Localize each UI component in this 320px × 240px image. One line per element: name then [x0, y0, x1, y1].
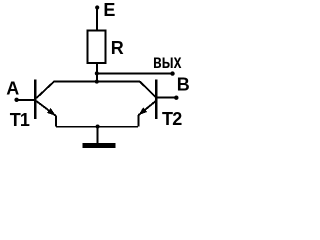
svg-text:T1: T1 — [10, 110, 30, 130]
node collector rail junction — [95, 80, 99, 84]
svg-text:R: R — [111, 38, 124, 58]
svg-text:E: E — [103, 0, 115, 20]
wire T1 emitter drop — [55, 116, 57, 127]
node emitter rail junction — [96, 125, 100, 129]
node vyh junction — [95, 71, 99, 75]
wire T2 emitter drop — [137, 115, 139, 127]
resistor R — [88, 31, 106, 64]
wire T1 emitter diagonal — [36, 101, 56, 116]
wire collector rail — [54, 81, 141, 83]
wire T2 base — [158, 97, 177, 99]
transistor T2 base bar — [155, 80, 158, 119]
wire T2 emitter diagonal — [138, 101, 155, 115]
wire E to resistor top — [96, 8, 98, 31]
wire T1 base — [17, 99, 34, 101]
terminal B — [174, 96, 178, 100]
wire T1 collector diagonal — [36, 82, 54, 99]
T1 emitter arrow — [47, 108, 56, 116]
wire ground stem — [97, 127, 99, 144]
svg-text:вых: вых — [153, 52, 182, 73]
wire T2 collector diagonal — [140, 82, 157, 99]
wire resistor bottom to collector rail — [96, 64, 98, 82]
svg-text:B: B — [177, 74, 190, 94]
svg-text:A: A — [6, 78, 19, 98]
wire emitter rail — [56, 126, 138, 128]
T2 emitter arrow — [138, 107, 147, 115]
transistor T1 base bar — [34, 80, 37, 120]
wire output to terminal — [97, 72, 173, 74]
terminal E — [95, 5, 99, 9]
svg-text:T2: T2 — [162, 109, 182, 129]
terminal vyh dot — [170, 71, 174, 75]
terminal A — [14, 98, 18, 102]
ground — [82, 143, 115, 148]
